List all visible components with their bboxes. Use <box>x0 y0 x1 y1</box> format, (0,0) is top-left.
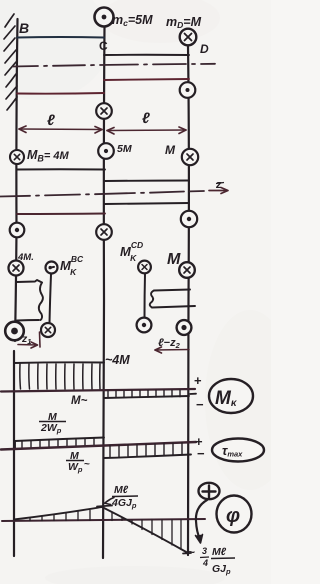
cut FBD 1: circle-x at cut bottom <box>41 323 55 337</box>
svg-text:Mℓ: Mℓ <box>212 546 227 558</box>
Mk diagram: left edge <box>13 351 15 556</box>
phi diagram: CD hatching <box>112 512 181 550</box>
svg-text:5M: 5M <box>117 143 132 155</box>
dimension z1 with arrow <box>18 332 40 348</box>
svg-text:3: 3 <box>202 546 207 556</box>
phi diagram: arrow from fraction to peak <box>105 498 115 505</box>
centerline row 1 <box>13 64 215 67</box>
node D vertical line <box>187 46 190 555</box>
z axis arrow (row 2) <box>209 188 228 194</box>
tau diagram: BC bar hatching <box>22 438 94 448</box>
tau diagram: zero baseline <box>1 442 196 450</box>
torque symbol circle-dot m_C (top of C) <box>95 8 114 27</box>
shaft BC outline (row 1) <box>17 36 104 39</box>
circled plus (rotation sign) <box>199 483 220 499</box>
Mk diagram: zero baseline <box>1 389 195 392</box>
fraction M/Wp <box>68 450 83 474</box>
cut FBD 1: circle-x 4M at B (row 3) <box>9 261 24 276</box>
cut FBD 1: circle-dash M_K^BC (row 3) <box>46 262 58 274</box>
svg-text:−: − <box>196 397 204 412</box>
circle-dot 5M at C (row 2) <box>98 143 114 159</box>
circle-x bottom of C (row 2) <box>96 224 112 240</box>
svg-text:M: M <box>165 143 176 157</box>
dimension l (B-C) <box>19 126 102 133</box>
svg-text:mD=M: mD=M <box>166 15 202 30</box>
phi diagram: zero baseline <box>2 519 205 521</box>
wall / node B vertical line <box>15 19 18 341</box>
circled phi label <box>217 496 252 533</box>
cut FBD 2: circle-dot bottom <box>137 318 152 333</box>
cut FBD 3: circle-x M at D top (row 3) <box>179 262 195 278</box>
svg-text:4M.: 4M. <box>17 252 34 263</box>
cut FBD 2: section line <box>144 274 147 317</box>
phi diagram: rising line B to C <box>14 507 102 520</box>
circled Mk label <box>209 379 253 413</box>
shaft CD outline (row 1) <box>104 54 189 56</box>
cut FBD 1: big circle-dot at B bottom <box>5 322 24 341</box>
tau diagram: CD negative bar bottom edge <box>104 455 191 459</box>
node C vertical line <box>103 27 105 558</box>
svg-text:B: B <box>19 20 29 36</box>
svg-text:z: z <box>215 179 222 191</box>
fraction M/2Wp <box>40 411 62 435</box>
circle-x below shaft at C (row 1) <box>96 103 112 119</box>
circled tau_max label <box>212 439 264 462</box>
svg-text:mc=5M: mc=5M <box>112 13 153 28</box>
cut FBD 3: stub outline with wavy cut <box>150 290 195 308</box>
Mk diagram: rectangle top edge <box>14 361 104 364</box>
Mk right end tick <box>190 393 196 395</box>
svg-text:~4M: ~4M <box>105 353 130 367</box>
circle-dot below shaft at D (row 1) <box>180 82 196 98</box>
svg-text:M~: M~ <box>71 395 88 407</box>
tau diagram: BC bar top edge <box>15 438 104 442</box>
FBD shaft CD (row 2) <box>105 180 189 183</box>
svg-text:4: 4 <box>202 558 208 568</box>
cut FBD 1: stub outline with wavy cut <box>17 280 43 321</box>
torque symbol circle-x M_D (top of D) <box>180 29 197 46</box>
cut FBD 2: circle-x M_K^CD top <box>138 261 151 274</box>
svg-text:Mℓ: Mℓ <box>114 484 129 496</box>
phi diagram: peak tick at C <box>97 506 112 507</box>
svg-text:M: M <box>167 251 181 268</box>
fraction Ml/4GJp <box>111 484 137 510</box>
svg-text:C: C <box>99 39 108 53</box>
svg-text:D: D <box>200 42 209 56</box>
svg-text:−: − <box>197 446 205 461</box>
svg-text:φ: φ <box>226 505 240 527</box>
svg-text:~: ~ <box>84 459 90 470</box>
circle-dot bottom of B (row 2) <box>10 223 25 238</box>
Mk diagram: negative bar CD bottom edge <box>104 396 189 398</box>
Mk diagram: hatching <box>20 364 100 389</box>
Mk diagram: negative bar hatching <box>108 390 180 397</box>
dimension l (C-D) <box>107 127 186 134</box>
dimension l-z2 with arrow <box>155 347 189 353</box>
circle-dot bottom of D (row 2) <box>181 211 197 227</box>
cut FBD 1: section line at z1 <box>50 275 52 324</box>
curved rotation arrow <box>196 500 208 543</box>
reaction circle-x M_B (row 2) <box>10 150 24 164</box>
tau diagram: CD bar hatching <box>110 443 182 458</box>
circle-x M at D (row 2) <box>182 149 198 165</box>
centerline row 2 <box>0 191 204 197</box>
FBD shaft BC (row 2) <box>17 168 105 170</box>
svg-text:ℓ: ℓ <box>47 112 55 129</box>
phi diagram: descending line C to D <box>101 507 188 554</box>
svg-text:~: ~ <box>188 545 195 559</box>
svg-text:ℓ: ℓ <box>142 110 150 127</box>
phi diagram: BC hatching <box>30 510 90 521</box>
cut FBD 3: circle-dot at D bottom (row 3) <box>177 320 192 335</box>
wall hatching <box>4 14 17 110</box>
phi diagram: end tick at D <box>183 552 191 555</box>
svg-text:MB= 4M: MB= 4M <box>27 148 70 164</box>
